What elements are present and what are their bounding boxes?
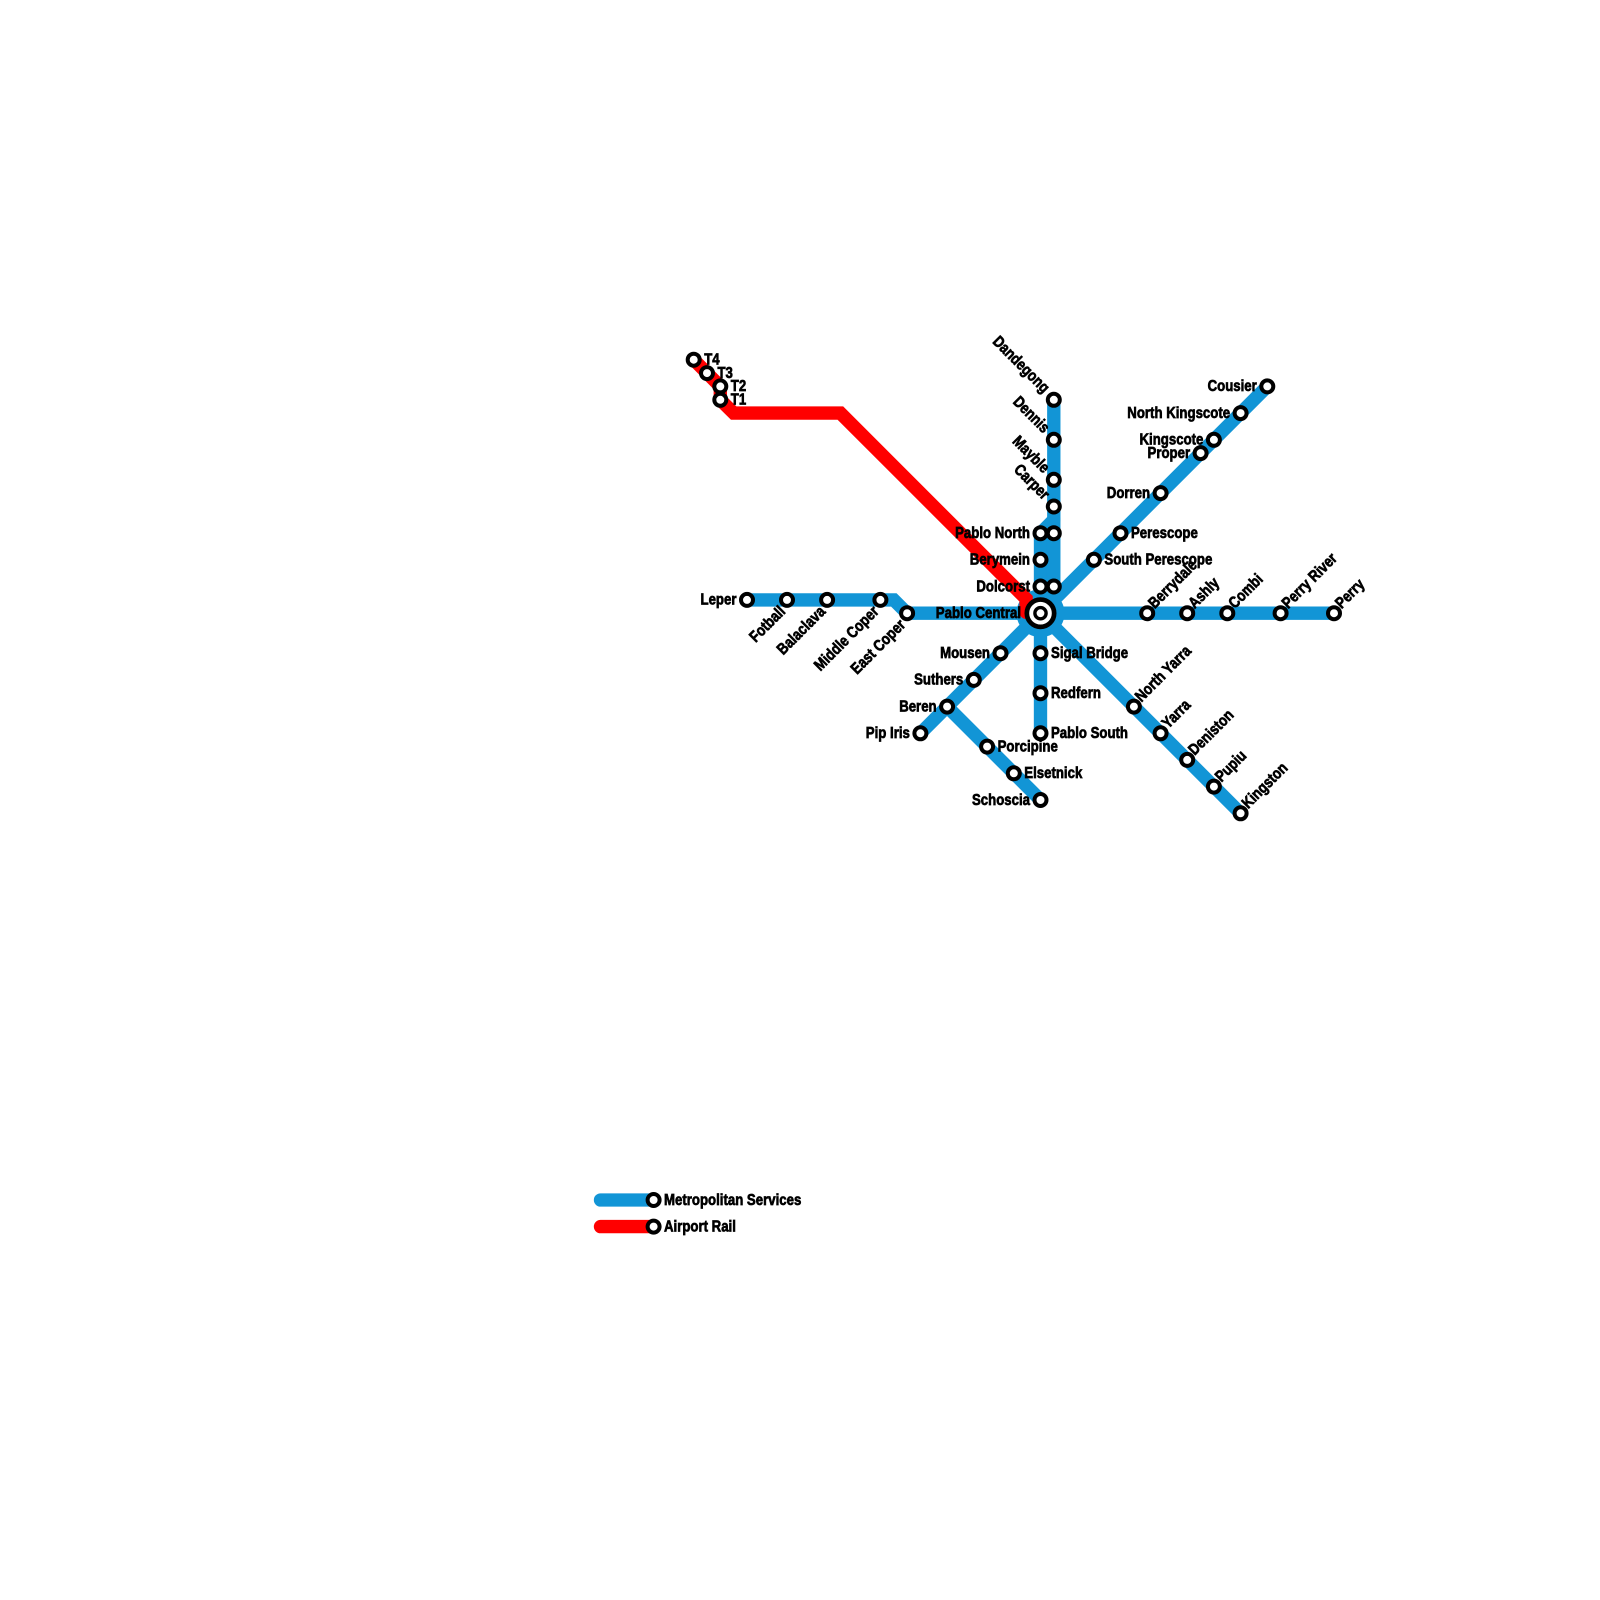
svg-text:Proper: Proper [1148, 445, 1191, 462]
station Pablo South circle [1035, 727, 1047, 739]
legend Airport Rail line [601, 1220, 654, 1233]
station Fotball circle [781, 594, 793, 606]
svg-text:Airport Rail: Airport Rail [664, 1218, 736, 1235]
wire node disc under Pablo Central [1017, 589, 1065, 637]
station Sigal Bridge circle [1035, 647, 1047, 659]
station Deniston circle [1181, 754, 1193, 766]
station Ashly circle [1181, 607, 1193, 619]
svg-text:North Kingscote: North Kingscote [1127, 405, 1230, 422]
station Beren circle [941, 701, 953, 713]
station Perescope circle [1115, 527, 1127, 539]
station North Yarra circle [1128, 701, 1140, 713]
station Dolcorst circle (right track) [1048, 581, 1060, 593]
station Pupiu circle [1208, 781, 1220, 793]
wire southeast line Pablo Central to Kingston [1041, 613, 1241, 813]
svg-text:Pablo Central: Pablo Central [936, 605, 1021, 622]
station Pablo North circle [1035, 527, 1047, 539]
station Yarra circle [1155, 727, 1167, 739]
wire northeast line Cousier to Pablo Central [1041, 386, 1268, 613]
svg-text:Metropolitan Services: Metropolitan Services [664, 1192, 801, 1209]
station Cousier circle [1261, 380, 1273, 392]
svg-text:Cousier: Cousier [1208, 378, 1257, 395]
svg-text:Leper: Leper [701, 592, 737, 609]
station Dandegong circle [1048, 394, 1060, 406]
svg-text:Porcipine: Porcipine [998, 738, 1058, 755]
svg-text:Mousen: Mousen [940, 645, 990, 662]
station T2 circle [714, 380, 726, 392]
station Combi circle [1221, 607, 1233, 619]
wire east line Pablo Central to Perry [1041, 607, 1335, 620]
svg-text:Suthers: Suthers [914, 672, 963, 689]
svg-text:Berymein: Berymein [970, 552, 1030, 569]
station Kingscote circle [1208, 434, 1220, 446]
svg-text:Perescope: Perescope [1131, 525, 1198, 542]
svg-text:Beren: Beren [899, 698, 936, 715]
station T1 circle [714, 394, 726, 406]
wire seam filler between north double tracks [1046, 524, 1054, 613]
legend Metropolitan Services line [601, 1193, 654, 1206]
station Dolcorst circle [1035, 581, 1047, 593]
station South Perescope circle [1088, 554, 1100, 566]
wire southwest line Pablo Central to Pip Iris [920, 613, 1040, 733]
svg-text:Pablo South: Pablo South [1051, 725, 1128, 742]
wire north line right track Dandegong to Pablo Central [1041, 400, 1054, 613]
station Berymein circle [1035, 554, 1047, 566]
station Balaclava circle [821, 594, 833, 606]
station Schoscia circle [1035, 794, 1047, 806]
station Mousen circle [995, 647, 1007, 659]
wire Airport Rail line T4 to Pablo Central [694, 360, 1026, 613]
svg-text:Dolcorst: Dolcorst [976, 578, 1030, 595]
svg-text:Pip Iris: Pip Iris [866, 725, 910, 742]
svg-text:Pablo North: Pablo North [955, 525, 1030, 542]
station Middle Coper circle [874, 594, 886, 606]
wire north line left track branch to Pablo Central [1041, 520, 1054, 613]
station Kingston circle [1235, 807, 1247, 819]
svg-text:Redfern: Redfern [1051, 685, 1101, 702]
station Redfern circle [1035, 687, 1047, 699]
station Berrydale circle [1141, 607, 1153, 619]
svg-text:T1: T1 [731, 392, 747, 409]
station Pablo North circle (right track) [1048, 527, 1060, 539]
station Proper circle [1195, 447, 1207, 459]
station East Coper circle [901, 607, 913, 619]
svg-text:Dorren: Dorren [1107, 485, 1150, 502]
station Perry River circle [1275, 607, 1287, 619]
wire west line Leper to Pablo Central [747, 600, 1041, 613]
legend Airport Rail station [648, 1221, 660, 1233]
station Suthers circle [968, 674, 980, 686]
interchange station Pablo Central symbol [1027, 600, 1054, 627]
station Pip Iris circle [914, 727, 926, 739]
station T4 circle [688, 354, 700, 366]
station Porcipine circle [981, 741, 993, 753]
station North Kingscote circle [1235, 407, 1247, 419]
wire south line Pablo Central to Pablo South [1034, 613, 1047, 733]
station Dorren circle [1155, 487, 1167, 499]
station Dennis circle [1048, 434, 1060, 446]
svg-text:Elsetnick: Elsetnick [1024, 765, 1082, 782]
station T3 circle [701, 367, 713, 379]
wire Beren branch to Schoscia [947, 707, 1040, 800]
legend Metropolitan Services station [648, 1194, 660, 1206]
station Carper circle [1048, 501, 1060, 513]
station Mayble circle [1048, 474, 1060, 486]
svg-text:Schoscia: Schoscia [972, 792, 1030, 809]
station Perry circle [1328, 607, 1340, 619]
station Leper circle [741, 594, 753, 606]
station Elsetnick circle [1008, 767, 1020, 779]
svg-text:Sigal Bridge: Sigal Bridge [1051, 645, 1128, 662]
